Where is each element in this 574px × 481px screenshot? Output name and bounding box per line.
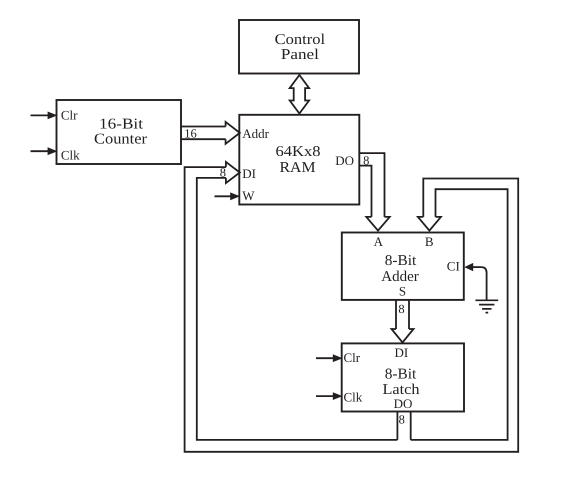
svg-text:S: S xyxy=(399,284,406,299)
block: 64Kx8 RAM xyxy=(239,115,359,205)
pin label: DO (latch) xyxy=(394,396,413,411)
bus width label: 8 (RAM DO) xyxy=(363,153,369,167)
wire: Clr input arrow (counter) xyxy=(31,112,58,120)
pin label: CI xyxy=(447,258,460,273)
svg-text:8: 8 xyxy=(399,413,405,427)
bus: counter to RAM Addr, open arrowhead xyxy=(226,122,240,144)
label: Adder xyxy=(381,269,419,285)
svg-text:W: W xyxy=(242,188,255,203)
label: 8-Bit (latch) xyxy=(385,366,417,382)
bus: adder S to latch DI, shaft lines xyxy=(396,300,409,329)
svg-text:DI: DI xyxy=(242,166,256,181)
block: 8-Bit Latch xyxy=(342,343,464,411)
bus: RAM DO to adder A, path xyxy=(359,153,384,217)
label: 64Kx8 xyxy=(276,144,321,160)
svg-text:Clk: Clk xyxy=(344,389,363,404)
bus: latch DO to adder B, inner edge xyxy=(411,189,508,440)
svg-text:Clr: Clr xyxy=(61,107,78,122)
pin label: W xyxy=(242,188,255,203)
block: 16-Bit Counter xyxy=(57,100,182,164)
svg-text:16: 16 xyxy=(184,126,197,140)
ground symbol xyxy=(475,300,498,312)
bus width label: 8 (S) xyxy=(398,302,404,316)
bus: latch DO outer edge (bottom run) xyxy=(185,167,519,452)
label: Counter xyxy=(94,131,147,147)
svg-text:16-Bit: 16-Bit xyxy=(99,117,144,133)
bus: latch DO stem xyxy=(397,412,410,440)
wire: Clk input arrow (latch) xyxy=(316,392,343,400)
wire: CI arrow line xyxy=(472,266,481,268)
svg-text:8-Bit: 8-Bit xyxy=(385,366,417,382)
block: 8-Bit Adder xyxy=(342,233,464,300)
pin label: Clk (counter) xyxy=(61,148,80,163)
label: 8-Bit (adder) xyxy=(385,253,417,269)
pin label: A xyxy=(374,234,384,249)
svg-text:DO: DO xyxy=(335,153,354,168)
bus width label: 8 (RAM DI) xyxy=(220,165,226,179)
label: Latch xyxy=(383,382,421,398)
bus: latch DO to RAM DI, inner edge xyxy=(197,178,398,440)
pin label: Addr xyxy=(242,126,269,141)
bus width label: 16 xyxy=(184,126,197,140)
svg-text:8-Bit: 8-Bit xyxy=(385,253,417,269)
bus: Control Panel to RAM (bidirectional arrow) xyxy=(290,75,309,114)
svg-text:RAM: RAM xyxy=(280,160,316,176)
svg-text:Addr: Addr xyxy=(242,126,269,141)
pin label: DO (RAM) xyxy=(335,153,354,168)
svg-text:Clr: Clr xyxy=(344,350,361,365)
pin label: B xyxy=(425,234,434,249)
wire: W input arrow xyxy=(215,192,241,200)
svg-text:64Kx8: 64Kx8 xyxy=(276,144,321,160)
svg-text:CI: CI xyxy=(447,258,460,273)
svg-text:Panel: Panel xyxy=(281,47,319,63)
label: Control xyxy=(275,32,326,48)
bus: counter to RAM Addr, shaft lines xyxy=(181,127,226,140)
bus: RAM DI open arrowhead xyxy=(226,162,240,183)
pin label: DI (latch) xyxy=(395,345,409,360)
svg-text:8: 8 xyxy=(363,153,369,167)
wire: CI from ground (bend) xyxy=(481,267,486,300)
pin label: Clr (latch) xyxy=(344,350,361,365)
label: 16-Bit xyxy=(99,117,144,133)
svg-text:DO: DO xyxy=(394,396,413,411)
pin label: DI (RAM) xyxy=(242,166,256,181)
block: Control Panel xyxy=(239,20,359,74)
svg-text:Clk: Clk xyxy=(61,148,80,163)
pin label: S xyxy=(399,284,406,299)
svg-text:Counter: Counter xyxy=(94,131,147,147)
svg-text:DI: DI xyxy=(395,345,409,360)
bus: RAM DO to adder A, open arrowhead xyxy=(366,217,389,231)
arrowhead: CI (filled, pointing left) xyxy=(464,263,473,271)
svg-text:Control: Control xyxy=(275,32,326,48)
pin label: Clr (counter) xyxy=(61,107,78,122)
svg-text:8: 8 xyxy=(220,165,226,179)
svg-text:8: 8 xyxy=(398,302,404,316)
bus width label: 8 (latch DO) xyxy=(399,413,405,427)
pin label: Clk (latch) xyxy=(344,389,363,404)
bus: adder B open arrowhead xyxy=(418,217,441,231)
wire: Clk input arrow (counter) xyxy=(31,147,58,155)
bus: adder S to latch DI, open arrowhead xyxy=(392,329,414,342)
wire: Clr input arrow (latch) xyxy=(316,354,343,362)
label: Panel xyxy=(281,47,319,63)
svg-text:B: B xyxy=(425,234,434,249)
svg-text:A: A xyxy=(374,234,384,249)
label: RAM xyxy=(280,160,316,176)
